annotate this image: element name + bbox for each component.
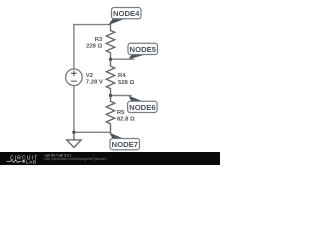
- svg-text:R5: R5: [117, 110, 125, 116]
- svg-text:228 Ω: 228 Ω: [86, 44, 102, 50]
- junction node R3-R4: [109, 58, 112, 61]
- footer logo LAB box: [23, 160, 25, 163]
- svg-text:R4: R4: [118, 73, 126, 79]
- svg-text:V2: V2: [86, 73, 94, 79]
- svg-text:NODE7: NODE7: [112, 140, 139, 149]
- wire left vertical top (to V2): [73, 25, 75, 69]
- svg-text:LAB: LAB: [26, 159, 37, 165]
- wire stub to NODE5: [111, 58, 134, 60]
- footer logo zigzag: [7, 160, 22, 163]
- wire bottom horizontal: [74, 131, 111, 133]
- svg-text:R3: R3: [95, 37, 103, 43]
- svg-text:http://circuitlab.com/c6kt/cqp: http://circuitlab.com/c6kt/cqp2an7jduz6k…: [45, 157, 107, 161]
- svg-text:NODE5: NODE5: [130, 45, 157, 54]
- wire top horizontal: [74, 24, 111, 26]
- svg-text:NODE6: NODE6: [129, 103, 156, 112]
- junction node ground: [72, 131, 75, 134]
- wire left vertical bottom (V2 to ground junction): [73, 86, 75, 133]
- resistor R4: [106, 59, 114, 95]
- svg-text:82.8 Ω: 82.8 Ω: [117, 116, 135, 122]
- node NODE5 flag: [128, 43, 158, 59]
- voltage source V2 circle: [66, 69, 83, 86]
- node NODE4 flag: [108, 8, 141, 26]
- node NODE6 flag: [128, 96, 158, 113]
- ground: [67, 132, 82, 147]
- junction node R4-R5: [109, 94, 112, 97]
- wire stub to NODE6: [111, 95, 132, 97]
- svg-text:528 Ω: 528 Ω: [118, 80, 134, 86]
- V2 minus sign: [72, 80, 77, 82]
- node NODE7 flag: [109, 133, 139, 150]
- resistor R5: [106, 96, 114, 133]
- svg-text:NODE4: NODE4: [113, 9, 140, 18]
- resistor R3: [106, 25, 114, 60]
- V2 plus sign: [72, 71, 77, 76]
- svg-text:7.28 V: 7.28 V: [86, 80, 103, 86]
- footer bar: [0, 152, 220, 165]
